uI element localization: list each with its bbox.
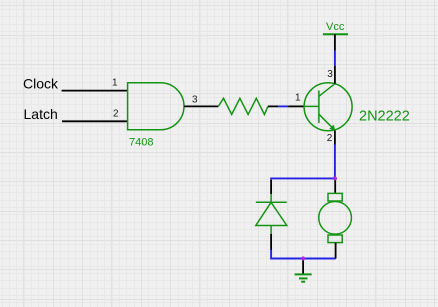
svg-text:3: 3	[327, 69, 333, 80]
wire Vcc to collector blue	[334, 51, 336, 66]
svg-text:2N2222: 2N2222	[359, 109, 410, 125]
motor M1	[319, 193, 352, 242]
emitter pin stub black	[334, 131, 336, 145]
svg-text:Vcc: Vcc	[326, 21, 345, 33]
wire bottom blue	[271, 250, 336, 259]
AND gate U1 (7408)	[128, 83, 184, 130]
transistor Q1 2N2222	[304, 83, 352, 131]
collector pin stub black	[334, 66, 336, 84]
svg-text:3: 3	[192, 95, 198, 106]
Vcc power symbol bar	[323, 33, 348, 35]
svg-text:7408: 7408	[129, 137, 153, 149]
Vcc pin stub black	[334, 34, 336, 51]
junction node at ground	[301, 256, 305, 260]
svg-text:2: 2	[327, 133, 333, 144]
wire top horizontal blue to diode branch	[271, 178, 335, 179]
resistor R1	[218, 98, 268, 114]
wire emitter down blue	[334, 145, 336, 179]
ground symbol	[295, 274, 312, 281]
wire gate output to resistor	[184, 105, 218, 107]
wire junction to motor top black	[334, 178, 336, 193]
svg-text:1: 1	[112, 78, 118, 89]
wire diode top stub black	[270, 180, 272, 194]
wire resistor to base segment blue	[278, 105, 288, 107]
svg-text:Latch: Latch	[24, 106, 58, 122]
wire latch input	[62, 120, 128, 122]
diode D1	[256, 194, 287, 234]
ground stub black	[302, 259, 304, 275]
wire motor bottom black	[335, 243, 337, 259]
junction node at emitter	[333, 176, 337, 180]
svg-text:1: 1	[295, 92, 301, 103]
wire clock input	[62, 90, 128, 92]
svg-text:Clock: Clock	[23, 76, 59, 92]
wire diode bottom stub black	[270, 234, 272, 250]
wire base pin stub black	[288, 105, 304, 107]
wire resistor to base segment black	[268, 105, 278, 107]
svg-text:2: 2	[113, 109, 119, 120]
